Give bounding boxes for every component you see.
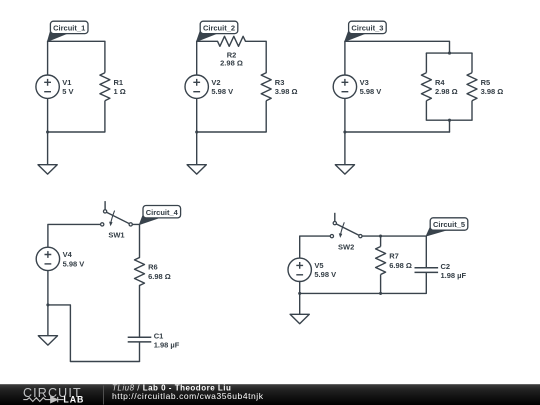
svg-text:C2: C2 [441, 262, 451, 271]
svg-text:R7: R7 [389, 252, 399, 261]
node label Circuit_1 [48, 21, 88, 41]
svg-text:V5: V5 [314, 261, 323, 270]
svg-text:1 Ω: 1 Ω [114, 87, 126, 96]
voltage source V3 [333, 41, 381, 132]
node junction (circuit 5 top) [379, 235, 382, 238]
resistor R4 [421, 53, 457, 120]
svg-text:3.98 Ω: 3.98 Ω [275, 87, 298, 96]
svg-text:2.98 Ω: 2.98 Ω [435, 87, 458, 96]
svg-text:V1: V1 [62, 78, 71, 87]
resistor R6 [135, 258, 171, 286]
switch SW1 (SPDT) [101, 201, 133, 240]
ground (circuit 4) [38, 305, 57, 345]
svg-text:R6: R6 [148, 263, 158, 272]
svg-text:Circuit_2: Circuit_2 [203, 24, 235, 33]
wire (circuit 2 bottom) [197, 131, 267, 133]
wire (SW2 to node) [362, 235, 426, 237]
node label Circuit_5 [426, 218, 468, 236]
svg-text:5.98 V: 5.98 V [360, 87, 382, 96]
svg-text:R1: R1 [114, 78, 124, 87]
wire (circuit 1 bottom) [48, 131, 105, 133]
node junction (circuit 5 left) [298, 292, 301, 295]
wire (circuit 1 top) [48, 40, 105, 42]
wire (node to R6) [139, 224, 141, 257]
wire (circuit 2 top-right corner) [246, 41, 267, 72]
node label Circuit_2 [197, 21, 238, 41]
wire (circuit 4 return) [48, 305, 140, 362]
footer separator [103, 386, 105, 405]
svg-text:SW2: SW2 [338, 242, 354, 251]
resistor R5 [467, 53, 503, 120]
node junction (circuit 5 bottom) [379, 292, 382, 295]
svg-text:LAB: LAB [63, 394, 84, 404]
wire (branch top) [426, 52, 472, 54]
svg-text:Circuit_4: Circuit_4 [146, 208, 179, 217]
svg-text:R4: R4 [435, 78, 445, 87]
wire (SW2 to V5) [300, 236, 330, 258]
capacitor C1 [128, 331, 180, 361]
wire (SW1 to node) [133, 223, 140, 225]
node junction (circuit 3 branch bottom) [448, 119, 451, 122]
svg-text:SW1: SW1 [108, 231, 124, 240]
footer bar [0, 384, 540, 405]
svg-text:1.98 µF: 1.98 µF [154, 341, 180, 350]
svg-text:3.98 Ω: 3.98 Ω [481, 87, 504, 96]
svg-text:5.98 V: 5.98 V [63, 259, 85, 268]
svg-text:Circuit_3: Circuit_3 [351, 24, 383, 33]
voltage source V1 [36, 41, 74, 132]
svg-text:6.98 Ω: 6.98 Ω [148, 272, 171, 281]
ground (circuit 1) [38, 132, 57, 174]
svg-text:C1: C1 [154, 331, 164, 340]
svg-text:R5: R5 [481, 78, 491, 87]
resistor R7 [376, 236, 412, 293]
node junction (circuit 3) [343, 130, 346, 133]
node label Circuit_4 [140, 206, 181, 225]
ground (circuit 3) [335, 132, 354, 174]
svg-text:5 V: 5 V [62, 87, 73, 96]
wire (circuit 3 top) [345, 41, 450, 53]
voltage source V2 [185, 41, 233, 132]
resistor R1 [100, 41, 126, 132]
wire (circuit 3 bottom) [345, 131, 450, 133]
svg-text:6.98 Ω: 6.98 Ω [389, 261, 412, 270]
node junction (circuit 2) [195, 130, 198, 133]
ground (circuit 2) [187, 132, 206, 174]
node junction (circuit 3 branch top) [448, 52, 451, 55]
wire (SW1 to V4) [48, 224, 101, 247]
svg-text:R3: R3 [275, 78, 285, 87]
voltage source V4 [36, 247, 84, 270]
svg-text:5.98 V: 5.98 V [211, 87, 233, 96]
wire (circuit 2 top-left) [197, 40, 218, 42]
svg-text:V3: V3 [360, 78, 369, 87]
svg-text:V2: V2 [211, 78, 220, 87]
wire (R6 to C1) [139, 286, 141, 338]
svg-text:Circuit_1: Circuit_1 [53, 24, 85, 33]
wire (circuit 5 bottom) [300, 292, 427, 294]
capacitor C2 [415, 236, 467, 294]
resistor R2 [218, 36, 246, 67]
svg-text:1.98 µF: 1.98 µF [441, 271, 467, 280]
svg-text:http://circuitlab.com/cwa356ub: http://circuitlab.com/cwa356ub4tnjk [112, 391, 264, 401]
wire (V5 to junction) [299, 282, 301, 294]
wire (V4 to junction) [47, 271, 49, 305]
wire (branch bottom) [426, 119, 472, 121]
switch SW2 (SPDT) [330, 213, 362, 252]
resistor R3 [261, 73, 297, 132]
node junction (circuit 4) [46, 303, 49, 306]
svg-text:V4: V4 [63, 250, 73, 259]
node label Circuit_3 [345, 21, 386, 41]
CircuitLab logo: resistor zigzag and diode [23, 397, 63, 403]
svg-text:2.98 Ω: 2.98 Ω [220, 58, 243, 67]
voltage source V5 [288, 258, 336, 281]
ground (circuit 5) [290, 293, 309, 323]
node junction (circuit 1) [46, 130, 49, 133]
wire (branch stem) [449, 120, 451, 132]
svg-text:5.98 V: 5.98 V [314, 270, 336, 279]
svg-text:Circuit_5: Circuit_5 [433, 220, 465, 229]
